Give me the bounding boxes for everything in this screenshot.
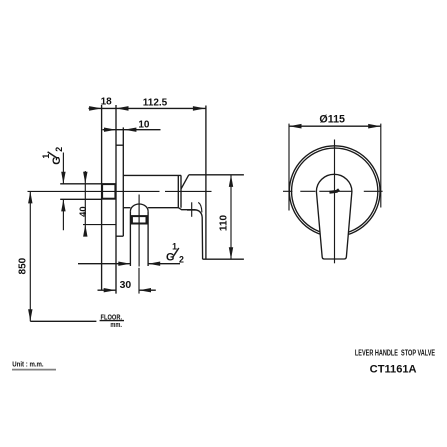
dimension line 10 xyxy=(103,129,161,131)
arrow tip left at x=116 xyxy=(116,106,129,111)
flange front line xyxy=(122,127,124,236)
front handle outline (masks circle behind) xyxy=(316,174,352,259)
svg-text:30: 30 xyxy=(120,280,132,291)
110 up arrow xyxy=(229,175,233,187)
D115 right extension line xyxy=(380,124,382,208)
40 down arrow xyxy=(83,172,87,184)
svg-text:10: 10 xyxy=(138,119,150,130)
arrow tip right at wall x=101.6 xyxy=(89,106,102,111)
G1/2 bottom dimension line right xyxy=(148,263,180,265)
svg-text:112.5: 112.5 xyxy=(143,97,168,108)
svg-text:mm.: mm. xyxy=(110,322,122,329)
G1/2 bottom label xyxy=(166,241,184,264)
floor underline xyxy=(100,320,124,322)
svg-text:G: G xyxy=(51,156,63,164)
svg-text:1: 1 xyxy=(41,154,51,159)
screw slot xyxy=(329,190,339,193)
handle chamfer diagonal xyxy=(181,175,189,189)
dimension 30 line right xyxy=(139,289,156,291)
svg-text:2: 2 xyxy=(54,147,64,152)
G1/2 bottom arrow left-pointing xyxy=(148,262,160,266)
handle top line with 110 top extension xyxy=(189,174,244,176)
D115 left arrow xyxy=(289,124,302,129)
handle foot bottom with 110 bottom extension xyxy=(203,258,244,260)
G1/2 top leader xyxy=(62,153,64,231)
svg-text:G: G xyxy=(166,251,174,263)
inner circle xyxy=(292,148,378,234)
dimension line D115 xyxy=(289,125,381,127)
dimension 40 leader line xyxy=(84,171,86,232)
G1/2 bottom dimension line left xyxy=(78,263,130,265)
D115 right arrow xyxy=(368,124,381,129)
arrow tip left at x=124.4 xyxy=(124,128,136,132)
svg-text:40: 40 xyxy=(77,206,88,216)
svg-text:18: 18 xyxy=(101,96,113,107)
front horizontal centerline dashes xyxy=(283,190,383,192)
front vertical centerline xyxy=(334,140,336,264)
dimension 30 line left xyxy=(98,289,116,291)
inlet nipple thick box xyxy=(102,184,115,199)
flange bottom cap xyxy=(116,235,123,237)
dimension 850 line xyxy=(29,191,31,321)
svg-text:1: 1 xyxy=(172,241,177,251)
svg-text:FLOOR.: FLOOR. xyxy=(101,314,123,321)
850 down arrow xyxy=(28,309,32,321)
30 arrow left-pointing xyxy=(139,288,151,292)
handle underside: step, fillet, back edge xyxy=(178,208,202,260)
svg-text:Unit : m.m.: Unit : m.m. xyxy=(12,360,43,368)
flange back line xyxy=(115,105,117,294)
inlet pipe bottom line xyxy=(60,198,101,200)
G1/2 top up arrow xyxy=(61,199,65,211)
outlet pipe right edge xyxy=(147,211,149,266)
40 up arrow xyxy=(83,225,87,237)
main centerline xyxy=(28,190,212,192)
handle screw cross horizontal xyxy=(187,209,196,211)
arrow tip right at x=205.4 xyxy=(193,106,206,111)
40 extension line xyxy=(83,224,116,226)
30 arrow right-pointing xyxy=(104,288,116,292)
valve body bottom line right xyxy=(148,207,178,209)
handle screw cross vertical xyxy=(191,202,193,217)
inlet pipe top line xyxy=(60,183,101,185)
svg-text:110: 110 xyxy=(219,214,230,231)
D115 left extension line xyxy=(288,124,290,211)
extension line 112.5 / handle front edge xyxy=(205,106,207,260)
outlet pipe left edge xyxy=(129,211,131,266)
outlet pipe dome xyxy=(130,204,148,211)
floor line xyxy=(30,320,96,322)
dimension line 18/112.5 xyxy=(89,107,206,109)
30 right extension line xyxy=(138,268,140,294)
svg-text:Ø115: Ø115 xyxy=(319,113,345,125)
valve body top line xyxy=(123,174,181,176)
svg-text:CT1161A: CT1161A xyxy=(370,364,417,376)
G1/2 bottom arrow right-pointing xyxy=(118,262,130,266)
arrow tip right at x=116 xyxy=(104,128,116,132)
valve body bottom line left xyxy=(123,207,130,209)
unit underline xyxy=(12,369,56,371)
outer circle xyxy=(289,146,380,237)
dimension 110 line xyxy=(230,175,232,259)
G1/2 top label (rotated) xyxy=(41,147,64,165)
svg-text:850: 850 xyxy=(18,257,29,274)
neck collar lines xyxy=(178,175,181,207)
outlet pipe centerline xyxy=(138,195,140,267)
G1/2 top down arrow xyxy=(61,172,65,184)
110 down arrow xyxy=(229,247,233,259)
outlet thick box xyxy=(132,216,147,223)
850 up arrow xyxy=(28,191,32,203)
handle inner curve xyxy=(198,202,202,212)
wall line xyxy=(101,105,103,290)
svg-text:LEVER HANDLE STOP VALVE: LEVER HANDLE STOP VALVE xyxy=(355,349,436,358)
flange top cap xyxy=(116,144,123,146)
svg-text:2: 2 xyxy=(179,254,184,264)
